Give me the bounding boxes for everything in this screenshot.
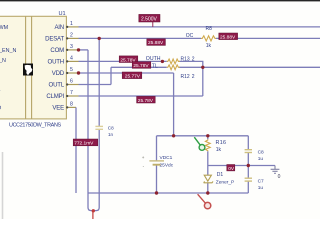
svg-text:R12: R12 <box>181 74 190 80</box>
bias label 0V <box>227 165 235 172</box>
wire R12 row left <box>111 66 167 68</box>
wire vertical DESAT down upper <box>98 38 100 126</box>
junction D1 bottom <box>206 191 209 194</box>
svg-text:VEE: VEE <box>52 105 64 112</box>
wire vertical R13-R12 node <box>202 61 204 96</box>
wire loop left lower <box>156 165 158 193</box>
junction VDD rail left <box>172 134 175 137</box>
IC U1 gate driver UCC21750DW_TRANS symbol body <box>0 16 66 119</box>
svg-text:0V: 0V <box>228 166 235 172</box>
svg-text:25.88V: 25.88V <box>148 40 164 46</box>
wire vertical VDD down <box>173 73 175 136</box>
svg-text:3: 3 <box>70 44 73 50</box>
svg-text:U1: U1 <box>59 11 66 17</box>
svg-text:1u: 1u <box>258 185 264 191</box>
voltage probe marker (green) <box>194 137 205 150</box>
junction R16 top <box>206 134 209 137</box>
wire D1 bottom lead <box>207 182 209 193</box>
svg-text:COM: COM <box>50 47 64 54</box>
svg-text:UCC21750DW_TRANS: UCC21750DW_TRANS <box>9 122 62 128</box>
junction 99/38 <box>98 37 101 40</box>
junction 0V rail <box>247 164 250 167</box>
svg-text:25Vdc: 25Vdc <box>160 162 174 168</box>
faint page edge left <box>2 152 4 219</box>
svg-text:OUTL: OUTL <box>49 82 65 89</box>
svg-text:25.88V: 25.88V <box>220 34 236 40</box>
svg-text:25.78V: 25.78V <box>133 63 149 69</box>
resistor R12 <box>167 65 180 70</box>
U1 pin stubs 1-8 <box>66 27 78 108</box>
svg-text:6: 6 <box>70 79 73 85</box>
zener diode D1 <box>204 175 213 183</box>
wire loop right mid <box>247 153 249 178</box>
svg-text:1k: 1k <box>216 147 222 153</box>
bias label 25.88V (DESAT) <box>147 39 166 46</box>
svg-text:I: I <box>0 70 1 76</box>
wire vertical DESAT down lower <box>98 130 100 193</box>
wire current loop below bottom <box>88 193 99 211</box>
wire VDD pin5 row <box>79 72 174 74</box>
wire vertical OUTL to R12 <box>110 67 112 84</box>
svg-text:0: 0 <box>278 174 281 180</box>
wire DESAT pin2 to R8 <box>79 37 202 39</box>
junction 78/73 <box>77 71 80 74</box>
svg-text:TL: TL <box>152 63 158 69</box>
capacitor C8 (DESAT, 1n) <box>95 126 103 129</box>
svg-text:2: 2 <box>70 33 73 39</box>
svg-text:2: 2 <box>192 56 195 62</box>
bias label 25.78V (OUTH) <box>119 56 138 63</box>
svg-text:C7: C7 <box>258 179 264 185</box>
window top edge <box>0 0 320 1</box>
bias label 25.78V (CLMPI row) <box>137 96 156 103</box>
wire R16 top lead <box>207 136 209 139</box>
svg-text:OUTH: OUTH <box>48 59 64 66</box>
svg-text:VDC1: VDC1 <box>160 155 173 161</box>
svg-text:-: - <box>143 164 145 169</box>
resistor R8 <box>201 36 216 41</box>
current probe marker (red) <box>198 194 211 209</box>
svg-text:R16: R16 <box>216 140 227 146</box>
wire OUTH pin4 to R13 <box>79 60 167 62</box>
ground 0 <box>271 166 280 174</box>
wire vertical VEE down <box>75 107 77 193</box>
wire AIN pin1 to right edge <box>79 26 320 28</box>
svg-text:4: 4 <box>70 56 73 62</box>
svg-text:+: + <box>142 155 145 160</box>
wire loop right lower <box>247 182 249 194</box>
wire loop right upper <box>247 136 249 149</box>
dc source VDC1 25Vdc <box>149 161 164 165</box>
svg-text:5: 5 <box>70 67 73 73</box>
wire R8 right to edge <box>216 37 320 39</box>
wire R16 bottom lead <box>207 151 209 165</box>
bias label 2.500V <box>139 14 160 27</box>
wire CLMPI pin7 row <box>79 95 203 97</box>
svg-text:WM: WM <box>0 25 9 31</box>
wire mid 0V rail <box>208 165 249 167</box>
svg-text:C8: C8 <box>258 150 264 156</box>
current probe at loop bottom (red) <box>92 209 95 212</box>
wire VDD rail top of loop <box>157 135 249 137</box>
svg-text:7: 7 <box>70 90 73 96</box>
junction 78/50 <box>77 48 80 51</box>
svg-text:1u: 1u <box>258 156 264 162</box>
svg-text:D1: D1 <box>217 172 224 178</box>
svg-text:R13: R13 <box>181 56 190 62</box>
svg-text:DESAT: DESAT <box>45 36 64 43</box>
svg-text:1n: 1n <box>108 132 114 137</box>
wire OUTL pin6 row <box>79 84 112 86</box>
svg-text:Zener_P: Zener_P <box>216 179 234 185</box>
wire vertical COM down <box>87 50 89 193</box>
wire R13 right lead <box>179 60 203 62</box>
svg-text:_EN_N: _EN_N <box>0 48 16 54</box>
resistor R13 <box>167 59 180 64</box>
junction OUTH node <box>161 60 164 63</box>
svg-text:2.500V: 2.500V <box>141 16 158 22</box>
pin connection tips <box>66 26 68 109</box>
wire ground branch <box>248 165 275 167</box>
svg-text:O: O <box>0 105 1 111</box>
svg-text:OUTH: OUTH <box>146 56 161 62</box>
svg-text:1k: 1k <box>206 43 212 49</box>
wire D1 top lead <box>207 166 209 176</box>
wire R12 right lead <box>179 66 203 68</box>
U1 right side pin names <box>45 24 65 112</box>
junction R12 node <box>201 66 204 69</box>
svg-text:R8: R8 <box>206 26 213 32</box>
svg-text:OC: OC <box>186 33 194 39</box>
bias label 25.78V (OUTL row) <box>132 62 151 69</box>
wire loop left upper <box>156 136 158 161</box>
resistor R16 <box>205 139 210 151</box>
svg-text:25.77V: 25.77V <box>125 73 141 79</box>
capacitor C8 (VDD, 1u) <box>245 150 252 153</box>
wire loop bottom <box>88 192 248 194</box>
svg-text:25.78V: 25.78V <box>138 98 154 104</box>
bias label 772.1mV (VEE) <box>73 139 98 147</box>
svg-text:_N: _N <box>0 58 6 64</box>
svg-text:C8: C8 <box>108 126 114 131</box>
capacitor C7 (VEE, 1u) <box>245 178 252 181</box>
svg-text:AIN: AIN <box>54 24 64 31</box>
svg-text:1: 1 <box>70 21 73 27</box>
svg-text:VDD: VDD <box>52 70 65 77</box>
TI logo inside U1 <box>23 64 33 76</box>
wire COM pin3 stub-right <box>79 49 89 51</box>
bias label 25.88V (after R8) <box>219 33 238 40</box>
pin numbers <box>70 21 73 108</box>
svg-text:8: 8 <box>70 102 73 108</box>
junction VDC bottom <box>155 191 158 194</box>
svg-text:CLMPI: CLMPI <box>46 93 64 100</box>
bias label 25.77V (VDD row) <box>122 72 142 79</box>
wire net right long <box>203 66 320 68</box>
svg-text:L: L <box>0 87 1 93</box>
svg-text:2: 2 <box>192 74 195 80</box>
svg-text:772.1mV: 772.1mV <box>74 141 94 147</box>
